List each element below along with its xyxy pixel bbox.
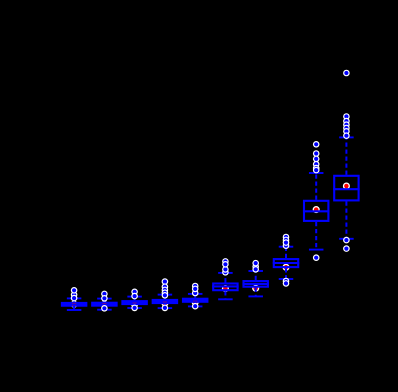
box B6 (Q1-Q3): [213, 284, 237, 291]
outlier B4 upper 1: [162, 278, 169, 285]
mean marker B1: [71, 301, 78, 308]
upper cap B4: [158, 294, 173, 296]
upper whisker B4 (dashed): [164, 295, 166, 299]
box B8 (Q1-Q3): [274, 259, 298, 267]
upper whisker B1 (dashed): [73, 298, 75, 302]
upper whisker B5 (dashed): [194, 294, 196, 298]
boxplot group B1: [61, 287, 88, 310]
outlier B6 upper 3: [222, 266, 229, 273]
outlier B3 upper 1: [131, 289, 138, 296]
upper whisker B7 (dashed): [255, 271, 257, 280]
mean sliver B1: [72, 304, 76, 307]
mean marker B6: [222, 285, 229, 292]
lower cap B8: [279, 278, 294, 280]
lower whisker B7 (dashed): [255, 288, 257, 297]
mean marker B5: [192, 299, 199, 306]
outlier B9 upper 6: [313, 167, 320, 174]
mean sliver B3: [133, 302, 137, 305]
outlier B10 upper 4: [343, 121, 350, 128]
upper cap B3: [127, 296, 142, 298]
upper whisker B6 (dashed): [224, 273, 226, 283]
outlier B7 upper 1: [252, 263, 259, 270]
outlier B9 upper 5: [313, 165, 320, 172]
box B9 (Q1-Q3): [304, 201, 328, 221]
box B2 (collapsed quartile bar): [91, 302, 118, 307]
mean marker B10: [343, 182, 350, 189]
lower whisker B10 (dashed): [345, 201, 347, 238]
outlier B3 lower 1: [131, 305, 138, 312]
outlier B6 upper 4: [222, 261, 229, 268]
boxplot group B2: [91, 291, 118, 312]
outlier B9 upper 1: [313, 141, 320, 148]
outlier B8 upper 3: [283, 242, 290, 249]
outlier B1 upper 1: [71, 291, 78, 298]
outlier B4 upper 4: [162, 289, 169, 296]
boxplot group B6: [212, 258, 239, 299]
outlier B10 upper 1: [343, 70, 350, 77]
lower cap B2: [97, 309, 112, 311]
upper cap B8: [279, 246, 294, 248]
outlier B8 upper 2: [283, 237, 290, 244]
median line B6: [212, 285, 239, 287]
lower cap B7: [248, 295, 263, 297]
mean marker B8: [282, 264, 289, 271]
outlier B10 upper 7: [343, 132, 350, 139]
lower whisker B6 (dashed): [224, 291, 226, 299]
lower whisker B8 (dashed): [285, 268, 287, 279]
outlier B5 upper 2: [192, 290, 199, 297]
upper cap B6: [218, 272, 233, 274]
mean marker B7: [252, 285, 259, 292]
upper whisker B2 (dashed): [103, 299, 105, 302]
outlier B8 upper 1: [283, 234, 290, 241]
outlier B6 upper 1: [222, 258, 229, 265]
upper cap B2: [97, 298, 112, 300]
outlier B7 upper 2: [252, 266, 259, 273]
lower whisker B3 (dashed): [134, 304, 136, 309]
upper whisker B3 (dashed): [134, 297, 136, 301]
boxplot group B10: [333, 70, 360, 252]
box B5 (collapsed quartile bar): [182, 298, 209, 303]
boxplot group B3: [121, 289, 148, 312]
box B10 (Q1-Q3): [334, 176, 358, 201]
outlier B10 upper 5: [343, 125, 350, 132]
outlier B9 upper 3: [313, 156, 320, 163]
outlier B2 upper 1: [101, 291, 108, 298]
box B3 (collapsed quartile bar): [121, 300, 148, 305]
outlier B1 upper 2: [71, 295, 78, 302]
upper cap B10: [339, 136, 354, 138]
mean sliver B1: [72, 302, 76, 305]
outlier B10 upper 3: [343, 118, 350, 125]
lower cap B9: [309, 249, 324, 251]
upper whisker B9 (dashed): [315, 173, 317, 200]
box B7 (Q1-Q3): [244, 281, 268, 287]
outlier B10 upper 2: [343, 113, 350, 120]
outlier B8 lower 2: [283, 280, 290, 287]
outlier B2 lower 1: [101, 305, 108, 312]
outlier B1 upper 3: [71, 287, 78, 294]
mean sliver B2: [102, 302, 106, 305]
lower whisker B4 (dashed): [164, 303, 166, 309]
lower cap B1: [67, 309, 82, 311]
outlier B5 upper 1: [192, 283, 199, 290]
box B1 (collapsed quartile bar): [61, 302, 88, 307]
outlier B10 upper 6: [343, 128, 350, 135]
boxplot group B8: [273, 234, 300, 287]
mean sliver B5: [193, 300, 197, 303]
outlier B5 lower 1: [192, 303, 199, 310]
outlier B7 upper 3: [252, 260, 259, 267]
outlier B6 upper 2: [222, 269, 229, 276]
median line B8: [273, 262, 300, 264]
outlier B4 upper 3: [162, 287, 169, 294]
mean marker B2: [101, 301, 108, 308]
outlier B5 upper 3: [192, 286, 199, 293]
outlier B9 upper 4: [313, 161, 320, 168]
outlier B4 upper 2: [162, 283, 169, 290]
outlier B8 upper 4: [283, 239, 290, 246]
boxplot group B7: [242, 260, 269, 297]
outlier B4 lower 1: [162, 305, 169, 312]
lower cap B3: [127, 307, 142, 309]
outlier B9 lower 1: [313, 254, 320, 261]
median line B9: [303, 210, 330, 212]
lower whisker B1 (dashed): [73, 305, 75, 310]
box B4 (collapsed quartile bar): [152, 299, 179, 304]
boxplot group B9: [303, 141, 330, 261]
median line B10: [333, 188, 360, 190]
upper cap B9: [309, 172, 324, 174]
lower whisker B9 (dashed): [315, 222, 317, 250]
outlier B8 lower 1: [283, 278, 290, 285]
mean marker B4: [161, 300, 168, 307]
upper cap B5: [188, 293, 203, 295]
boxplot group B4: [152, 278, 179, 311]
lower cap B4: [158, 307, 173, 309]
lower whisker B2 (dashed): [103, 305, 105, 310]
lower whisker B5 (dashed): [194, 301, 196, 306]
lower cap B10: [339, 238, 354, 240]
upper whisker B8 (dashed): [285, 247, 287, 258]
mean sliver B2: [102, 304, 106, 307]
outlier B9 upper 2: [313, 150, 320, 157]
outlier B10 lower 2: [343, 245, 350, 252]
lower cap B6: [218, 298, 233, 300]
lower cap B5: [188, 305, 203, 307]
upper whisker B10 (dashed): [345, 137, 347, 174]
mean sliver B4: [163, 301, 167, 304]
mean marker B9: [313, 206, 320, 213]
upper cap B1: [67, 297, 82, 299]
outlier B3 upper 2: [131, 293, 138, 300]
outlier B10 lower 1: [343, 237, 350, 244]
outlier B2 upper 2: [101, 295, 108, 302]
median line B7: [242, 283, 269, 285]
outlier B4 upper 5: [162, 292, 169, 299]
mean marker B3: [131, 301, 138, 308]
boxplot group B5: [182, 283, 209, 310]
upper cap B7: [248, 270, 263, 272]
